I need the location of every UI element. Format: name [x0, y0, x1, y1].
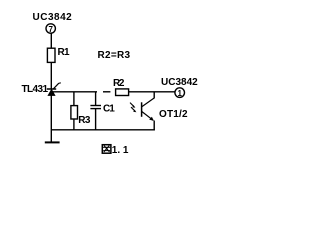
- wire TL431 anode down to ground rail: [50, 96, 52, 142]
- resistor R1: [47, 48, 55, 62]
- TL431 U2: [47, 83, 61, 96]
- svg-text:1: 1: [177, 89, 182, 98]
- wire pin7 to R1: [50, 34, 52, 49]
- cathode bar: [47, 88, 56, 90]
- reference diagonal: [53, 83, 58, 89]
- emitter arrowhead: [149, 117, 154, 121]
- svg-text:UC3842: UC3842: [33, 12, 73, 23]
- svg-text:R3: R3: [78, 115, 91, 126]
- capacitor C1 plates: [90, 105, 101, 107]
- svg-text:TL431: TL431: [22, 84, 49, 95]
- collector diagonal: [142, 98, 155, 107]
- svg-text:R2: R2: [113, 78, 125, 89]
- base bar: [141, 102, 143, 117]
- anode triangle: [47, 89, 55, 96]
- svg-text:UC3842: UC3842: [161, 77, 198, 88]
- ground: [45, 141, 60, 143]
- light arrow 2: [131, 107, 136, 112]
- light arrow 1: [130, 103, 135, 108]
- svg-text:C1: C1: [103, 104, 115, 115]
- caption figure 1.1: [102, 145, 129, 157]
- collector lead: [153, 92, 155, 98]
- wire R1 to TL431 cathode: [50, 62, 52, 89]
- resistor R3 stub: [73, 92, 75, 106]
- wire segment to R2: [103, 91, 110, 93]
- node wire (feedback line) TL431 to C1: [52, 91, 97, 93]
- resistor R3: [71, 106, 78, 119]
- svg-text:1. 1: 1. 1: [112, 145, 129, 156]
- svg-text:R2=R3: R2=R3: [98, 50, 131, 61]
- emitter diagonal: [142, 112, 153, 121]
- emitter lead: [153, 121, 155, 131]
- svg-text:OT1/2: OT1/2: [159, 109, 188, 120]
- ground rail wire: [51, 129, 155, 131]
- optocoupler phototransistor OT1/2: [142, 92, 155, 131]
- pin 1 circle: [175, 88, 185, 98]
- capacitor C1 stub: [95, 92, 97, 105]
- pin 7 circle: [46, 24, 55, 33]
- svg-text:R1: R1: [58, 47, 71, 58]
- svg-text:7: 7: [48, 25, 53, 34]
- wire R2 to pin1: [129, 91, 175, 93]
